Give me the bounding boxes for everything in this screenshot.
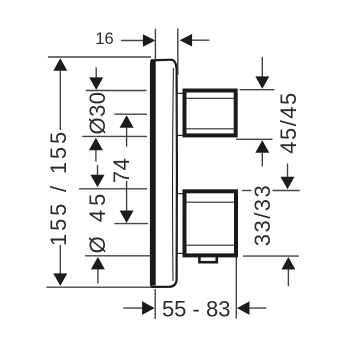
dimension 74 (handle spacing) xyxy=(109,114,148,223)
svg-text:16: 16 xyxy=(95,30,113,48)
svg-text:45/45: 45/45 xyxy=(276,91,301,154)
plate front crease xyxy=(172,68,175,281)
svg-text:33/33: 33/33 xyxy=(250,184,275,247)
bottom handle (thermostat knob, side view) xyxy=(185,191,237,255)
dimension 16 (plate depth) xyxy=(95,29,209,76)
dimension 55 - 83 (depth range, bottom) xyxy=(123,258,266,322)
dimension 45/45 (right upper) xyxy=(236,57,301,167)
top handle (volume knob, side view) xyxy=(185,91,236,136)
dimension Ø30 (top handle) xyxy=(82,67,147,161)
dimension 155 / 155 (plate height, left) xyxy=(46,57,152,287)
dimension Ø 45 (bottom handle) xyxy=(79,165,151,284)
svg-text:Ø 45: Ø 45 xyxy=(85,190,110,254)
svg-text:155 / 155: 155 / 155 xyxy=(46,129,71,246)
svg-text:74: 74 xyxy=(109,158,134,183)
bottom handle collar xyxy=(177,194,183,254)
svg-text:Ø30: Ø30 xyxy=(85,91,110,134)
dimension 33/33 (right lower) xyxy=(242,164,300,287)
top handle collar xyxy=(177,93,183,135)
svg-text:55 - 83: 55 - 83 xyxy=(162,296,231,321)
wall plate (escutcheon, side view) xyxy=(151,60,177,287)
plate back edge (thick bar) xyxy=(151,60,156,285)
thermostat handle tab xyxy=(199,252,216,262)
